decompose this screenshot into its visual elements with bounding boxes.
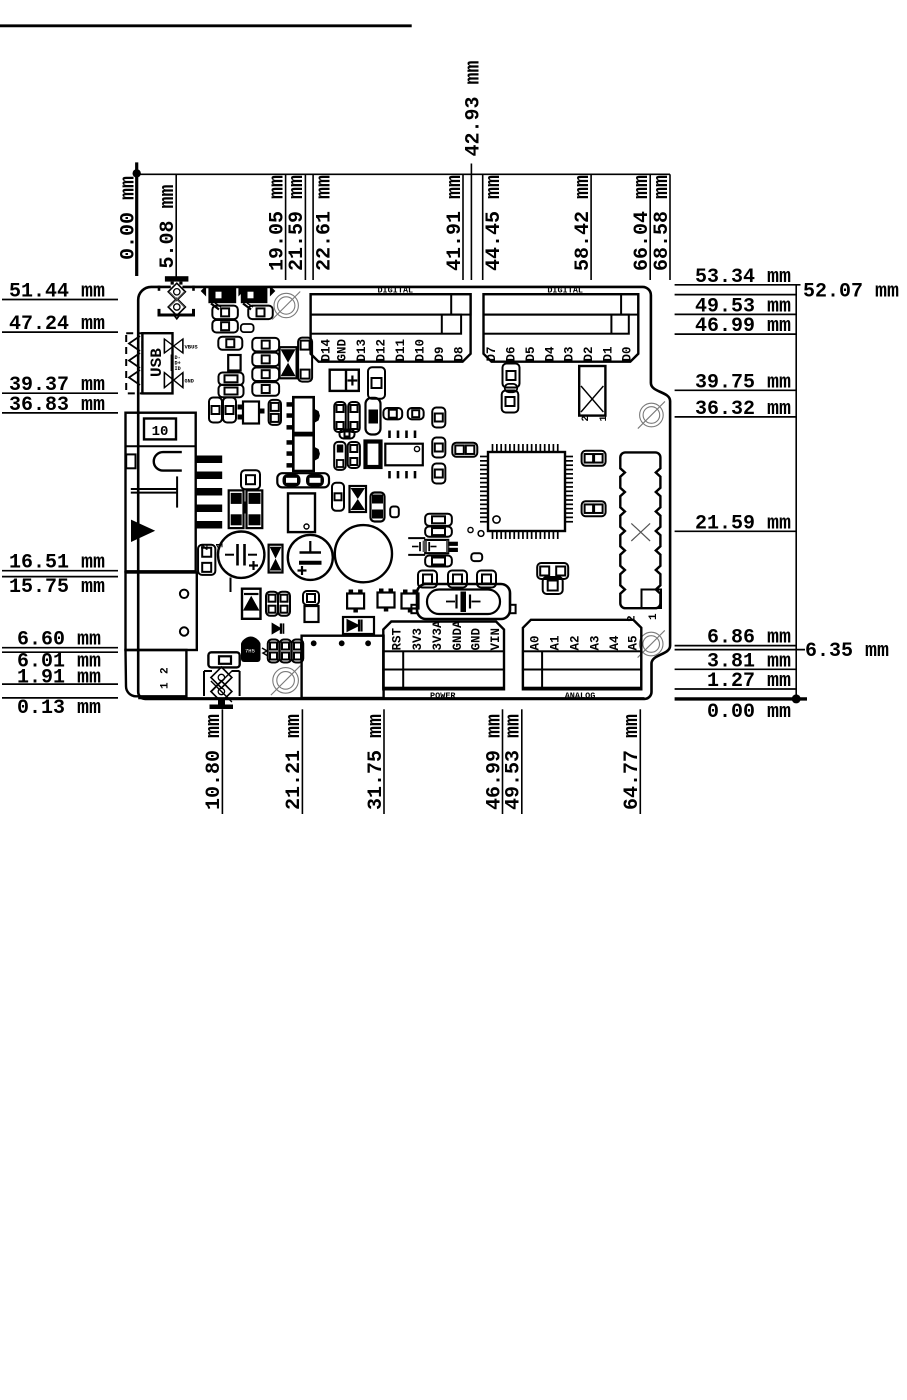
pad pair b1	[266, 592, 290, 616]
svg-text:ID: ID	[175, 366, 181, 372]
svg-text:VBUS: VBUS	[185, 344, 199, 351]
right dimension 53.34 mm	[675, 266, 801, 289]
regulator U4	[287, 435, 320, 471]
svg-text:2: 2	[581, 415, 592, 421]
pad below D4	[502, 391, 519, 413]
crystal pads	[418, 571, 496, 588]
transistor Q1	[238, 402, 265, 424]
svg-text:6.35 mm: 6.35 mm	[805, 640, 889, 663]
svg-text:GND: GND	[185, 379, 194, 385]
op-amp U2 SOIC8	[385, 431, 423, 479]
top dimension baseline	[133, 169, 671, 177]
capacitor C3	[335, 525, 392, 582]
USB data pins	[172, 355, 181, 373]
power jack polarity triangle	[132, 520, 155, 541]
svg-text:10: 10	[152, 424, 169, 440]
svg-text:A5: A5	[626, 635, 640, 650]
pad pair v6	[348, 442, 360, 468]
diode D3	[242, 589, 261, 619]
resistor pads	[218, 337, 242, 350]
svg-text:21.59 mm: 21.59 mm	[695, 512, 791, 535]
svg-text:D3: D3	[563, 346, 577, 361]
svg-text:64.77 mm: 64.77 mm	[621, 714, 644, 810]
svg-text:RST: RST	[390, 627, 404, 650]
svg-text:D1: D1	[601, 346, 615, 361]
svg-text:0.00 mm: 0.00 mm	[118, 176, 141, 260]
right dimension 39.75 mm	[675, 371, 797, 394]
resistor array R1-R3	[268, 640, 304, 663]
svg-text:2: 2	[160, 667, 172, 674]
svg-text:21.21 mm: 21.21 mm	[283, 714, 306, 810]
svg-text:POWER: POWER	[430, 691, 456, 701]
top dimension 42.93 mm	[463, 60, 486, 280]
svg-text:D10: D10	[413, 339, 427, 362]
capacitor C2	[288, 535, 333, 580]
pads pair above regulator	[277, 473, 329, 487]
digital header right row1	[484, 294, 639, 314]
svg-text:D5: D5	[524, 346, 538, 361]
USB GND pad	[164, 373, 193, 388]
pads h2	[248, 306, 273, 320]
transistor Q2	[347, 594, 364, 609]
inductor L1	[366, 442, 381, 468]
right dimension 6.35 mm	[675, 640, 889, 663]
microcontroller U1 QFP	[468, 444, 573, 539]
svg-text:D4: D4	[543, 346, 557, 362]
ICSP pad pair B	[582, 501, 606, 516]
digital header left outline	[311, 294, 471, 362]
svg-text:0.13 mm: 0.13 mm	[17, 697, 101, 720]
svg-text:USB: USB	[148, 348, 166, 377]
right dimension 3.81 mm	[675, 650, 797, 673]
pads h1	[212, 306, 238, 320]
edge connector X3	[620, 452, 661, 608]
left dimension 16.51 mm	[2, 552, 118, 575]
capacitor C1	[218, 532, 264, 578]
svg-text:A1: A1	[549, 635, 563, 650]
top dimension 41.91 mm	[444, 174, 467, 280]
black pads	[371, 493, 385, 522]
power jack inner lines	[131, 476, 177, 507]
svg-text:36.32 mm: 36.32 mm	[695, 398, 791, 421]
left dimension 15.75 mm	[2, 576, 118, 599]
svg-text:A2: A2	[568, 635, 582, 650]
left dimension 0.13 mm	[2, 697, 118, 720]
svg-text:D8: D8	[452, 346, 466, 361]
power header row2	[383, 670, 504, 688]
ICSP pad pair A	[582, 451, 606, 466]
bottom dimension 46.99 mm	[483, 709, 506, 814]
top dimension 58.42 mm	[572, 174, 595, 280]
svg-text:1: 1	[160, 682, 172, 689]
pads h3	[212, 320, 238, 333]
svg-text:D0: D0	[621, 346, 635, 361]
analog header row2	[523, 670, 641, 688]
svg-text:46.99 mm: 46.99 mm	[695, 315, 791, 338]
svg-text:A3: A3	[588, 635, 602, 650]
diode D2	[269, 545, 283, 573]
power jack side tab	[126, 454, 135, 468]
left dimension 51.44 mm	[2, 281, 118, 304]
pad pair b2	[303, 591, 319, 622]
tantalum C6	[366, 398, 381, 435]
tantalum capacitor C4	[229, 490, 244, 528]
svg-text:6.86 mm: 6.86 mm	[707, 627, 791, 650]
svg-text:16.51 mm: 16.51 mm	[9, 552, 105, 575]
svg-text:42.93 mm: 42.93 mm	[463, 60, 486, 156]
pad pair v3	[334, 402, 360, 432]
svg-text:1: 1	[599, 415, 610, 421]
svg-text:D12: D12	[374, 339, 388, 362]
right dimension 1.27 mm	[675, 670, 797, 693]
board outline	[138, 287, 670, 699]
mounting hole top-right	[640, 403, 664, 427]
top dimension 0.00 mm	[118, 162, 141, 276]
svg-text:21.59 mm: 21.59 mm	[286, 175, 309, 271]
board bottom edge emphasis	[138, 697, 644, 699]
regulator U3	[287, 397, 320, 433]
diode D4	[343, 617, 374, 634]
analog header outline	[523, 620, 641, 690]
left dimension 1.91 mm	[2, 667, 118, 690]
diode bowtie	[280, 347, 297, 378]
pad black top	[334, 442, 346, 470]
svg-text:22.61 mm: 22.61 mm	[314, 175, 337, 271]
svg-text:53.34 mm: 53.34 mm	[695, 266, 791, 289]
power jack pins	[196, 456, 223, 529]
pad small h	[340, 430, 355, 439]
svg-text:D7: D7	[485, 346, 499, 361]
svg-text:58.42 mm: 58.42 mm	[572, 175, 595, 271]
right dimension 49.53 mm	[675, 295, 797, 318]
transistor T2 751	[241, 637, 268, 662]
svg-text:D2: D2	[582, 346, 596, 361]
pads column 4x	[252, 338, 279, 396]
mounting hole bottom-right	[639, 632, 663, 656]
right dimension 36.32 mm	[675, 398, 797, 421]
power jack X1 body	[126, 413, 196, 572]
solder jumper SJ1	[579, 366, 605, 416]
crystal Y1	[411, 584, 515, 619]
top dimension 22.61 mm	[313, 174, 337, 280]
reset button S1	[302, 636, 384, 698]
svg-text:1.27 mm: 1.27 mm	[707, 670, 791, 693]
pad rrect	[241, 324, 254, 332]
svg-text:D13: D13	[355, 339, 369, 362]
svg-text:1: 1	[648, 613, 660, 620]
svg-text:D9: D9	[433, 346, 447, 361]
battery pad B1	[330, 370, 359, 391]
svg-text:36.83 mm: 36.83 mm	[9, 394, 105, 417]
svg-text:7H5: 7H5	[245, 648, 255, 655]
svg-text:DIGITAL: DIGITAL	[547, 286, 583, 296]
pad small b2	[332, 483, 344, 511]
mounting hole bottom-left	[273, 668, 299, 694]
diode D1	[241, 287, 275, 310]
top dimension 21.59 mm	[286, 174, 309, 280]
svg-text:41.91 mm: 41.91 mm	[444, 175, 467, 271]
digital header right row2	[484, 315, 629, 334]
pad oval	[505, 384, 517, 392]
resistor row pads	[383, 408, 423, 419]
top dimension 19.05 mm	[266, 174, 289, 280]
top dimension 5.08 mm	[157, 174, 180, 280]
pad vert top	[368, 367, 385, 399]
top dimension 44.45 mm	[483, 174, 507, 280]
pad group below QFP	[537, 563, 568, 594]
LED D5	[272, 623, 283, 633]
pad below D5	[503, 364, 520, 388]
right dimension 52.07 mm	[675, 281, 899, 304]
svg-text:1.91 mm: 1.91 mm	[17, 667, 101, 690]
svg-text:39.75 mm: 39.75 mm	[695, 371, 791, 394]
svg-text:D11: D11	[394, 339, 408, 362]
power jack barrel	[126, 573, 197, 651]
right dimension 46.99 mm	[675, 315, 797, 338]
power jack label 10	[144, 419, 176, 441]
svg-text:6.60 mm: 6.60 mm	[17, 629, 101, 652]
tantalum capacitor C5	[243, 490, 262, 528]
svg-text:D6: D6	[505, 346, 519, 361]
right dimension 21.59 mm	[675, 512, 797, 535]
svg-text:3V3: 3V3	[411, 628, 425, 651]
svg-text:GND: GND	[469, 627, 483, 650]
right dimension reference line	[792, 285, 801, 704]
pad square	[228, 355, 240, 371]
digital header right outline	[484, 294, 639, 362]
bottom dimension 10.80 mm	[203, 709, 226, 814]
bottom dimension 31.75 mm	[365, 709, 388, 814]
right dimension 0.00 mm	[675, 699, 807, 724]
top dimension 68.58 mm	[651, 174, 674, 280]
pad rrect small	[471, 553, 482, 561]
svg-text:5.08 mm: 5.08 mm	[157, 184, 180, 268]
svg-text:15.75 mm: 15.75 mm	[9, 576, 105, 599]
svg-text:A0: A0	[529, 635, 543, 650]
resistor pads 2	[219, 373, 244, 398]
svg-text:ANALOG: ANALOG	[565, 691, 596, 701]
svg-text:68.58 mm: 68.58 mm	[651, 175, 674, 271]
svg-text:A4: A4	[608, 635, 622, 651]
svg-text:2: 2	[627, 615, 639, 622]
transistor Q4	[402, 594, 419, 609]
USB VBUS pad	[164, 339, 198, 353]
svg-text:52.07 mm: 52.07 mm	[803, 281, 899, 304]
svg-text:D14: D14	[319, 338, 333, 361]
mounting hole top-left	[274, 293, 298, 317]
bottom dimension 21.21 mm	[283, 709, 306, 814]
usb shield pad X1 top	[159, 276, 194, 319]
pad above tantalum	[241, 470, 260, 489]
top dimension 66.04 mm	[631, 174, 654, 280]
right dimension 6.86 mm	[675, 627, 797, 650]
USB connector J1	[126, 333, 172, 393]
transistor Q3	[378, 593, 395, 608]
svg-text:VIN: VIN	[489, 628, 503, 651]
left dimension 36.83 mm	[2, 394, 118, 417]
pad pair v2	[209, 398, 236, 423]
left dimension 39.37 mm	[2, 374, 118, 397]
left dimension 6.01 mm	[2, 651, 118, 674]
svg-text:44.45 mm: 44.45 mm	[483, 175, 506, 271]
diode bowtie 2	[350, 486, 367, 512]
polyfuse F1	[202, 287, 244, 310]
svg-text:51.44 mm: 51.44 mm	[9, 281, 105, 304]
pad pair above QFP	[452, 443, 477, 457]
svg-text:0.00 mm: 0.00 mm	[707, 701, 791, 724]
pad rrect b	[390, 507, 399, 518]
digital header left row1	[311, 294, 471, 314]
digital header left row2	[311, 315, 462, 334]
svg-text:3V3A: 3V3A	[431, 620, 445, 651]
left dimension 47.24 mm	[2, 313, 118, 336]
svg-text:GNDA: GNDA	[451, 620, 465, 651]
svg-text:31.75 mm: 31.75 mm	[365, 714, 388, 810]
svg-text:10.80 mm: 10.80 mm	[203, 714, 226, 810]
wire below C1	[230, 578, 232, 593]
svg-text:49.53 mm: 49.53 mm	[503, 714, 526, 810]
power header row1	[383, 651, 504, 669]
usb shield pad X2 bottom	[204, 667, 240, 709]
svg-text:2: 2	[201, 544, 212, 550]
bottom dimension 49.53 mm	[503, 709, 526, 814]
power header outline	[383, 622, 504, 690]
svg-text:GND: GND	[336, 338, 350, 361]
power jack bottom	[126, 650, 187, 696]
pad single b	[208, 652, 239, 667]
resonator Y2	[408, 538, 458, 555]
pad pair v	[298, 338, 312, 382]
jack pad pair	[198, 545, 215, 575]
svg-text:47.24 mm: 47.24 mm	[9, 313, 105, 336]
regulator T1	[288, 493, 315, 532]
left dimension 6.60 mm	[2, 629, 118, 652]
analog header row1	[523, 651, 641, 669]
svg-text:DIGITAL: DIGITAL	[377, 286, 413, 296]
pads column right	[432, 408, 445, 484]
power jack pin notch	[154, 452, 182, 471]
pad v	[269, 400, 281, 425]
power jack divider	[126, 445, 196, 447]
title underline	[0, 24, 412, 27]
bottom dimension 64.77 mm	[621, 709, 644, 814]
resonator Y2 pads	[425, 514, 452, 567]
